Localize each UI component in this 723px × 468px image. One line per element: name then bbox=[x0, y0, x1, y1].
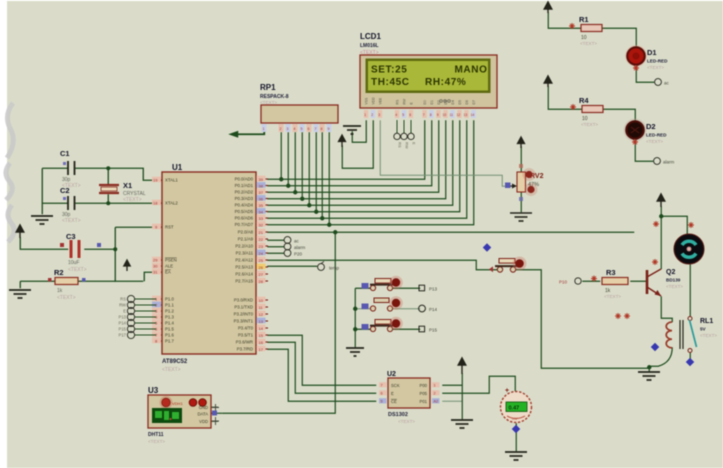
wire RP1 pin3 drop bbox=[287, 132, 289, 186]
wire buttons rail bbox=[354, 288, 356, 347]
svg-text:P2.3/A11: P2.3/A11 bbox=[236, 251, 254, 256]
svg-text:PSEN: PSEN bbox=[165, 258, 177, 263]
svg-text:29: 29 bbox=[153, 258, 158, 263]
ground (U2 rail) bbox=[451, 420, 473, 428]
wire R1 to D1 bbox=[602, 28, 636, 47]
terminal RS (P1.0) bbox=[127, 295, 156, 338]
svg-text:<TEXT>: <TEXT> bbox=[162, 367, 181, 373]
svg-text:D2: D2 bbox=[646, 122, 656, 131]
svg-text:R2: R2 bbox=[54, 268, 64, 277]
marker red ** (relay) bbox=[615, 313, 630, 319]
wire LCD VSS to ground bbox=[352, 120, 366, 142]
terminal P20 (P2.3) bbox=[284, 250, 302, 257]
wire D1 to terminal ac2 bbox=[636, 65, 654, 82]
svg-text:P2.2/A10: P2.2/A10 bbox=[235, 244, 253, 249]
svg-text:E: E bbox=[391, 391, 394, 396]
wire temp row bbox=[267, 265, 317, 267]
node DHT data tap bbox=[333, 230, 337, 234]
svg-text:P0.0/AD0: P0.0/AD0 bbox=[235, 177, 254, 182]
terminal alarm (P2.2) bbox=[284, 243, 305, 250]
svg-text:P1.6: P1.6 bbox=[165, 333, 174, 338]
svg-text:P15: P15 bbox=[119, 327, 127, 332]
svg-text:RST: RST bbox=[165, 225, 174, 230]
svg-text:14: 14 bbox=[471, 113, 475, 117]
svg-text:VDD: VDD bbox=[372, 97, 376, 105]
capacitor C2 bbox=[60, 186, 81, 224]
wire button1 row bbox=[355, 287, 372, 289]
svg-text:VEE: VEE bbox=[379, 97, 383, 105]
svg-text:P0.1/AD1: P0.1/AD1 bbox=[235, 183, 254, 188]
svg-text:C2: C2 bbox=[60, 186, 70, 195]
svg-text:2: 2 bbox=[280, 127, 282, 131]
svg-text:27: 27 bbox=[259, 272, 264, 277]
svg-text:SCK: SCK bbox=[391, 383, 400, 388]
wire R3 to Q2 base bbox=[630, 280, 646, 282]
resistor pack RP1 bbox=[260, 83, 338, 123]
svg-text:LM016L: LM016L bbox=[360, 43, 379, 49]
push button 2 (P14) bbox=[362, 296, 403, 311]
wire R2 to ground bbox=[20, 280, 57, 282]
svg-text:R4: R4 bbox=[579, 96, 589, 105]
svg-text:P20: P20 bbox=[294, 252, 303, 257]
svg-text:MANO: MANO bbox=[455, 65, 488, 76]
svg-text:A2: A2 bbox=[434, 400, 439, 404]
RP1 pin marks bbox=[262, 124, 332, 132]
wire D2 to terminal alarm2 bbox=[635, 139, 653, 161]
wire Q2 emitter down bbox=[661, 296, 672, 322]
svg-text:RW: RW bbox=[403, 98, 407, 104]
wire P2.0 long row bbox=[267, 231, 634, 233]
svg-text:CE: CE bbox=[391, 399, 397, 404]
svg-text:R3: R3 bbox=[606, 268, 616, 277]
svg-text:P15: P15 bbox=[429, 328, 438, 333]
svg-text:P1.3: P1.3 bbox=[165, 315, 174, 320]
terminal ac (P2.1) bbox=[284, 237, 299, 244]
svg-text:6: 6 bbox=[308, 127, 310, 131]
wire C2 to XTAL2 bbox=[75, 202, 162, 204]
svg-text:P3.2/INT0: P3.2/INT0 bbox=[234, 312, 254, 317]
wire P3 to U2 E bbox=[267, 342, 376, 393]
svg-text:2: 2 bbox=[434, 392, 436, 396]
svg-text:16: 16 bbox=[259, 340, 264, 345]
svg-text:<TEXT>: <TEXT> bbox=[398, 419, 415, 424]
transistor Q2 bbox=[647, 221, 683, 296]
svg-text:2: 2 bbox=[371, 113, 373, 117]
wire button3 row bbox=[355, 328, 372, 330]
wire P0 bus row 4 bbox=[267, 120, 446, 199]
wire RP1 pin4 drop bbox=[294, 132, 296, 192]
wire P0 bus row 3 bbox=[267, 120, 439, 192]
svg-text:LED-RED: LED-RED bbox=[646, 133, 667, 138]
U1 left pin stubs bbox=[156, 180, 162, 341]
svg-text:P2.6/A14: P2.6/A14 bbox=[235, 272, 253, 277]
resistor R4 bbox=[570, 96, 603, 127]
svg-text:D4: D4 bbox=[451, 100, 455, 104]
wire RV2 top power bbox=[520, 146, 522, 173]
led D2 bbox=[624, 119, 668, 146]
svg-text:15: 15 bbox=[259, 333, 264, 338]
svg-text:alarm: alarm bbox=[663, 160, 675, 165]
svg-text:1: 1 bbox=[364, 113, 366, 117]
node P0 junction dots bbox=[279, 177, 331, 227]
resistor R2 bbox=[48, 268, 86, 301]
svg-text:3: 3 bbox=[378, 113, 380, 117]
svg-text:D1: D1 bbox=[430, 100, 434, 104]
svg-text:22: 22 bbox=[259, 237, 264, 242]
svg-text:<TEXT>: <TEXT> bbox=[700, 333, 717, 338]
svg-text:P3.3/INT1: P3.3/INT1 bbox=[234, 319, 254, 324]
svg-text:P14: P14 bbox=[119, 321, 127, 326]
node crystal-C1 junction bbox=[106, 166, 110, 170]
ground (relay node) bbox=[638, 372, 660, 380]
svg-text:P2.0/A8: P2.0/A8 bbox=[238, 230, 254, 235]
svg-text:R1: R1 bbox=[579, 15, 589, 24]
svg-text:17: 17 bbox=[259, 347, 264, 352]
svg-text:P1.5: P1.5 bbox=[165, 327, 174, 332]
wire RP1 pin5 drop bbox=[301, 132, 303, 199]
svg-text:E: E bbox=[412, 142, 417, 145]
svg-text:Q2: Q2 bbox=[666, 269, 675, 276]
wire P2 button row bbox=[267, 260, 498, 270]
wire terminal ac bbox=[267, 239, 284, 241]
wire terminal P20 bbox=[267, 252, 284, 254]
svg-text:18: 18 bbox=[153, 201, 158, 206]
lcd LCD1 bbox=[360, 32, 497, 108]
svg-text:P0.2/AD2: P0.2/AD2 bbox=[235, 190, 254, 195]
wire RP1 common arrow bbox=[234, 124, 264, 134]
svg-text:RL1: RL1 bbox=[700, 318, 713, 325]
svg-text:GND: GND bbox=[199, 405, 208, 410]
svg-text:37: 37 bbox=[259, 190, 264, 195]
node C3/RST junction bbox=[113, 247, 117, 251]
capacitor C1 bbox=[60, 149, 81, 189]
svg-text:<TEXT>: <TEXT> bbox=[123, 197, 142, 203]
power arrow (motor) bbox=[657, 194, 665, 207]
svg-text:ac: ac bbox=[664, 81, 670, 86]
svg-text:D5: D5 bbox=[458, 100, 462, 104]
svg-text:EA: EA bbox=[165, 270, 171, 275]
svg-text:P1.4: P1.4 bbox=[165, 321, 174, 326]
svg-text:P10: P10 bbox=[559, 280, 568, 285]
svg-text:P0.6/AD6: P0.6/AD6 bbox=[235, 216, 254, 221]
svg-text:5: 5 bbox=[381, 400, 383, 404]
svg-text:DHT11: DHT11 bbox=[148, 432, 164, 438]
svg-text:3: 3 bbox=[287, 127, 289, 131]
svg-text:0.47: 0.47 bbox=[509, 406, 520, 412]
svg-text:35: 35 bbox=[259, 203, 264, 208]
svg-text:DS1302: DS1302 bbox=[388, 412, 408, 418]
power arrow (LCD VDD) bbox=[339, 135, 346, 147]
marker blue diamond (coil) bbox=[651, 343, 659, 351]
wire U2 pin P01 to ground rail bbox=[442, 400, 462, 402]
svg-text:RS: RS bbox=[398, 142, 403, 148]
svg-text:C1: C1 bbox=[60, 149, 70, 158]
svg-text:10uF: 10uF bbox=[68, 260, 79, 266]
wire terminal alarm bbox=[267, 246, 284, 248]
crystal X1 bbox=[99, 181, 146, 203]
svg-text:30: 30 bbox=[153, 264, 158, 269]
wire RP1 pin2 drop bbox=[280, 132, 282, 179]
svg-text:DATA: DATA bbox=[197, 412, 208, 417]
wire DHT11 data vertical bbox=[222, 232, 335, 413]
svg-text:RW: RW bbox=[405, 142, 410, 149]
svg-text:31: 31 bbox=[153, 270, 158, 275]
svg-text:ALE: ALE bbox=[165, 264, 173, 269]
svg-text:P1.0: P1.0 bbox=[165, 297, 174, 302]
marker blue diamond (meter) bbox=[512, 425, 520, 433]
wire P0 bus row 8 bbox=[267, 120, 474, 225]
wire P3 to U2 CE bbox=[267, 349, 376, 401]
wire RP1 pin8 drop bbox=[321, 132, 323, 218]
svg-text:25: 25 bbox=[259, 258, 264, 263]
svg-text:<TEXT>: <TEXT> bbox=[647, 65, 664, 70]
svg-text:P1.1: P1.1 bbox=[165, 303, 174, 308]
svg-text:VDH1: VDH1 bbox=[172, 401, 183, 406]
svg-text:AT89C52: AT89C52 bbox=[162, 359, 188, 365]
svg-text:<TEXT>: <TEXT> bbox=[581, 122, 598, 127]
svg-text:temp: temp bbox=[329, 266, 340, 271]
svg-text:P17: P17 bbox=[119, 333, 127, 338]
svg-text:RH:47%: RH:47% bbox=[425, 77, 466, 88]
motor (fan) bbox=[674, 222, 704, 264]
svg-text:26: 26 bbox=[259, 265, 264, 270]
svg-text:P13: P13 bbox=[429, 287, 438, 292]
resistor R1 bbox=[569, 15, 602, 46]
svg-text:P1.7: P1.7 bbox=[165, 339, 174, 344]
svg-text:12: 12 bbox=[457, 113, 461, 117]
watermark bbox=[6, 103, 14, 242]
terminal alarm (LED D2) bbox=[654, 158, 675, 165]
svg-text:RS: RS bbox=[396, 99, 400, 104]
svg-text:X1: X1 bbox=[123, 181, 132, 190]
svg-text:VDD: VDD bbox=[199, 419, 208, 424]
wire power to Q2 collector bbox=[660, 206, 662, 269]
svg-text:E: E bbox=[123, 309, 126, 314]
svg-text:24: 24 bbox=[259, 251, 264, 256]
svg-text:VSS: VSS bbox=[365, 97, 369, 105]
wire RP1 pin6 drop bbox=[308, 132, 310, 205]
svg-text:P05: P05 bbox=[420, 391, 428, 396]
U1 right pin stubs bbox=[256, 179, 268, 349]
svg-text:19: 19 bbox=[153, 178, 158, 183]
svg-text:+: + bbox=[505, 388, 509, 395]
svg-text:P3.1/TXD: P3.1/TXD bbox=[234, 305, 253, 310]
svg-text:U2: U2 bbox=[387, 371, 396, 378]
svg-text:BD139: BD139 bbox=[666, 278, 681, 283]
lcd pin labels bbox=[365, 97, 477, 105]
wire RP1 pin7 drop bbox=[315, 132, 317, 212]
svg-text:11: 11 bbox=[450, 113, 454, 117]
ground (meter) bbox=[505, 452, 527, 460]
svg-text:6: 6 bbox=[381, 392, 383, 396]
svg-text:9: 9 bbox=[437, 113, 439, 117]
svg-text:33: 33 bbox=[259, 216, 264, 221]
terminal P10 (R3 input) bbox=[559, 278, 581, 285]
svg-text:10: 10 bbox=[259, 298, 264, 303]
svg-text:P2.4/A12: P2.4/A12 bbox=[235, 258, 253, 263]
svg-text:<TEXT>: <TEXT> bbox=[260, 100, 277, 105]
potentiometer RV2 bbox=[505, 137, 544, 221]
sensor U3 DHT11 bbox=[148, 386, 219, 444]
wire P3 to U2 SCK bbox=[267, 335, 376, 385]
svg-text:P2.1/A9: P2.1/A9 bbox=[238, 237, 254, 242]
svg-text:<TEXT>: <TEXT> bbox=[68, 267, 87, 273]
ground (C1/C2 rail) bbox=[31, 216, 53, 224]
wire button to corner bbox=[514, 270, 649, 369]
wire LCD VEE to pot bbox=[380, 120, 513, 186]
svg-text:P3.5/T1: P3.5/T1 bbox=[238, 333, 254, 338]
wire RP1 pin9 drop bbox=[328, 132, 330, 225]
lcd pin marks bbox=[364, 110, 476, 118]
svg-text:12: 12 bbox=[259, 312, 264, 317]
svg-text:XTAL1: XTAL1 bbox=[165, 178, 178, 183]
svg-text:D7: D7 bbox=[472, 100, 476, 104]
terminal P13 bbox=[419, 285, 438, 291]
svg-text:P3.7/RD: P3.7/RD bbox=[237, 347, 253, 352]
svg-text:21: 21 bbox=[259, 230, 264, 235]
wire LCD VDD to power bbox=[342, 120, 373, 168]
resistor R3 bbox=[591, 268, 628, 299]
node relay ground junction bbox=[647, 365, 651, 369]
svg-text:5: 5 bbox=[301, 127, 303, 131]
power arrow (C3 rail) bbox=[16, 225, 24, 238]
capacitor C3 (electrolytic) bbox=[60, 232, 101, 273]
svg-text:39: 39 bbox=[259, 177, 264, 182]
svg-text:32: 32 bbox=[259, 223, 264, 228]
svg-text:U3: U3 bbox=[148, 386, 159, 395]
wire C3 to RST node bbox=[84, 248, 115, 250]
svg-text:23: 23 bbox=[259, 244, 264, 249]
svg-text:4: 4 bbox=[294, 127, 296, 131]
svg-text:D0: D0 bbox=[423, 100, 427, 104]
power arrow (R4) bbox=[544, 76, 552, 87]
svg-text:1: 1 bbox=[434, 384, 436, 388]
svg-text:9: 9 bbox=[328, 127, 330, 131]
wire power to C3 bbox=[20, 237, 68, 249]
wire RV2 bottom ground bbox=[520, 191, 522, 212]
wire meter to ground bbox=[515, 423, 517, 451]
wire EA step bbox=[144, 272, 162, 281]
svg-text:4: 4 bbox=[395, 113, 397, 117]
wire U2 power vertical bbox=[461, 373, 463, 419]
terminal P15 bbox=[419, 326, 438, 332]
svg-text:10: 10 bbox=[443, 113, 447, 117]
svg-text:<TEXT>: <TEXT> bbox=[580, 41, 597, 46]
svg-text:7: 7 bbox=[381, 384, 383, 388]
svg-text:<TEXT>: <TEXT> bbox=[646, 139, 663, 144]
svg-text:TH:45C: TH:45C bbox=[371, 77, 410, 88]
wire DHT11 stubs bbox=[211, 406, 218, 408]
svg-text:alarm: alarm bbox=[294, 245, 306, 250]
svg-text:<TEXT>: <TEXT> bbox=[62, 218, 81, 224]
svg-text:36: 36 bbox=[259, 197, 264, 202]
wire P0 bus row 5 bbox=[267, 120, 453, 205]
wire R4 to D2 bbox=[602, 109, 635, 121]
svg-text:P00: P00 bbox=[420, 383, 428, 388]
ic U2 DS1302 bbox=[379, 371, 440, 424]
wire relay coil to ground node bbox=[649, 347, 672, 372]
wire RST vertical bbox=[115, 227, 143, 281]
power arrow (EA) bbox=[124, 260, 130, 271]
svg-text:<TEXT>: <TEXT> bbox=[666, 284, 683, 289]
svg-text:<TEXT>: <TEXT> bbox=[57, 295, 76, 301]
wire C1 to XTAL1 bbox=[75, 168, 162, 180]
ground (buttons) bbox=[346, 348, 364, 356]
push button 3 (P15) bbox=[362, 317, 403, 332]
svg-text:<TEXT>: <TEXT> bbox=[148, 439, 165, 444]
marker blue diamond (switch) bbox=[686, 358, 694, 366]
power arrow (U2) bbox=[458, 358, 466, 374]
wire P0 bus row 2 bbox=[267, 120, 432, 186]
wire C1 left rail to ground bbox=[42, 167, 68, 169]
svg-text:D1: D1 bbox=[647, 48, 657, 57]
svg-text:ac: ac bbox=[294, 239, 300, 244]
node crystal-C2 junction bbox=[106, 201, 110, 205]
svg-text:P3.0/RXD: P3.0/RXD bbox=[234, 298, 253, 303]
svg-text:13: 13 bbox=[259, 319, 264, 324]
svg-text:U1: U1 bbox=[172, 163, 183, 172]
relay RL1 switch bbox=[688, 317, 717, 353]
svg-text:5: 5 bbox=[402, 113, 404, 117]
svg-text:14: 14 bbox=[259, 326, 264, 331]
node button rail junctions bbox=[353, 307, 357, 311]
wire crystal top bbox=[107, 168, 109, 184]
ground (R2) bbox=[9, 290, 31, 298]
svg-text:P3.6/WR: P3.6/WR bbox=[236, 340, 253, 345]
node motor tap bbox=[659, 214, 663, 218]
svg-text:P3.4/T0: P3.4/T0 bbox=[238, 326, 254, 331]
svg-text:P01: P01 bbox=[420, 399, 428, 404]
mcu U1 body bbox=[162, 163, 256, 373]
U1 right pin numbers bbox=[257, 176, 266, 352]
svg-text:P0.7/AD7: P0.7/AD7 bbox=[235, 222, 254, 227]
led D1 bbox=[625, 45, 668, 71]
wire R1 from power bbox=[548, 12, 581, 28]
svg-text:<TEXT>: <TEXT> bbox=[604, 294, 621, 299]
svg-text:P1.2: P1.2 bbox=[165, 309, 174, 314]
svg-text:13: 13 bbox=[464, 113, 468, 117]
svg-text:SET:25: SET:25 bbox=[371, 65, 407, 76]
terminal P14 bbox=[419, 305, 438, 312]
power arrow (R1) bbox=[544, 2, 552, 13]
svg-text:P0.5/AD5: P0.5/AD5 bbox=[235, 209, 254, 214]
wire button2 row bbox=[355, 308, 372, 310]
push button (P2.4 line) bbox=[483, 243, 527, 272]
svg-text:RP1: RP1 bbox=[260, 83, 276, 92]
terminal RS below LCD bbox=[394, 120, 414, 140]
wire P0 bus row 6 bbox=[267, 120, 460, 212]
svg-text:P13: P13 bbox=[119, 315, 127, 320]
svg-text:mV: mV bbox=[512, 417, 518, 421]
svg-text:5V: 5V bbox=[700, 327, 707, 332]
svg-text:7: 7 bbox=[315, 127, 317, 131]
svg-text:LED-RED: LED-RED bbox=[647, 59, 668, 64]
push button 1 (P13) bbox=[362, 276, 403, 291]
svg-text:D6: D6 bbox=[465, 100, 469, 104]
U1 left pin numbers bbox=[152, 177, 161, 344]
wire motor bottom to relay switch bbox=[689, 264, 691, 316]
svg-text:28: 28 bbox=[259, 279, 264, 284]
svg-text:6: 6 bbox=[409, 113, 411, 117]
svg-text:P0.4/AD4: P0.4/AD4 bbox=[235, 203, 254, 208]
wire U2 pin P00 to power rail bbox=[442, 384, 462, 386]
svg-text:XTAL2: XTAL2 bbox=[165, 201, 178, 206]
svg-text:LCD1: LCD1 bbox=[360, 32, 381, 41]
terminal temp (P2.5) bbox=[318, 261, 340, 270]
svg-text:7: 7 bbox=[423, 113, 425, 117]
U1 pin names bbox=[165, 178, 178, 344]
svg-text:RW: RW bbox=[119, 303, 126, 308]
